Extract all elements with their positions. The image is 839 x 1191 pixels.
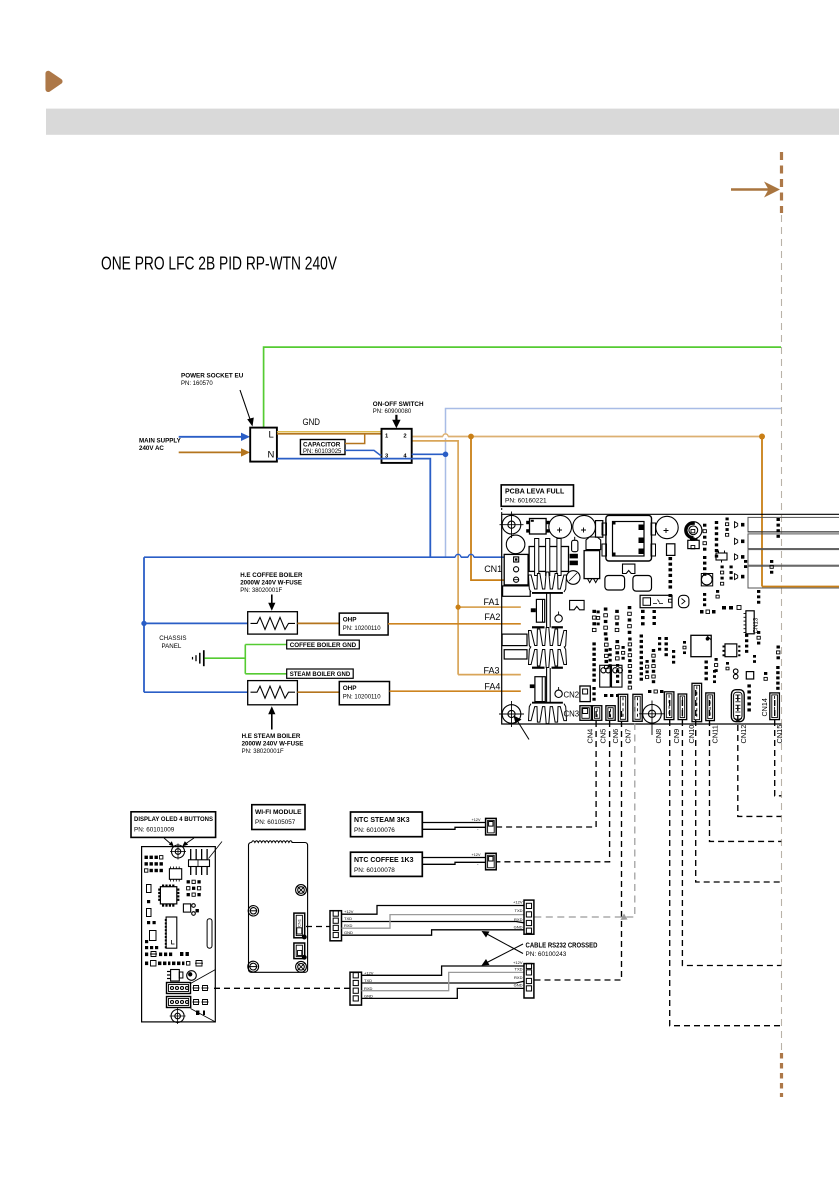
label ON-OFF SWITCH bbox=[373, 401, 424, 415]
NTC STEAM text bbox=[354, 817, 410, 834]
heatsink HS1 fins bbox=[529, 572, 567, 724]
steam OHP box bbox=[339, 682, 389, 705]
display RS232 dashed link bbox=[214, 987, 350, 989]
junction dot neutral bbox=[443, 452, 449, 458]
label CN8 under PCB bbox=[654, 729, 663, 744]
wire display +12V bbox=[362, 966, 525, 975]
capacitor C1 box bbox=[300, 440, 345, 455]
display connector J1 bbox=[167, 983, 209, 994]
svg-text:GND: GND bbox=[514, 925, 523, 930]
regulator TO-220 bbox=[584, 551, 600, 583]
coffee boiler resistor element bbox=[251, 617, 296, 629]
label FA1 bbox=[484, 597, 500, 607]
coffee OHP text bbox=[343, 616, 382, 632]
display left col parts bbox=[145, 931, 158, 950]
display connector vertical bbox=[165, 917, 177, 948]
NTC coffee wires bbox=[422, 858, 485, 865]
svg-text:H.E STEAM BOILER: H.E STEAM BOILER bbox=[242, 733, 301, 740]
svg-text:TXD: TXD bbox=[344, 916, 352, 921]
NTC coffee connector bbox=[486, 853, 497, 870]
leader arrow to switch bbox=[392, 415, 400, 429]
coffee boiler resistor box bbox=[248, 612, 298, 634]
svg-text:CN15: CN15 bbox=[775, 725, 784, 744]
wire coffee boiler to OHP bbox=[297, 622, 339, 624]
svg-text:PN: 60100078: PN: 60100078 bbox=[354, 867, 395, 874]
relay bank pin symbols bbox=[735, 522, 745, 580]
junction dot live/CN1 drop bbox=[468, 434, 474, 440]
varistor circle bbox=[566, 571, 580, 585]
node COFFEE BOILER GND box bbox=[287, 640, 360, 649]
NTC steam wires bbox=[422, 823, 485, 830]
small circle part bbox=[555, 612, 562, 623]
svg-text:CN4: CN4 bbox=[586, 729, 595, 744]
wire chassis ground green bbox=[205, 657, 246, 659]
svg-text:+12V: +12V bbox=[513, 900, 523, 905]
display pad grid top-left bbox=[145, 856, 163, 873]
wifi RS232 dashed link bbox=[306, 926, 330, 928]
svg-text:PN: 10200110: PN: 10200110 bbox=[343, 626, 382, 632]
microcontroller IC big bbox=[691, 635, 711, 656]
connector CN2 circle bbox=[555, 687, 562, 698]
wire wifi +12V bbox=[342, 906, 525, 915]
capacitor vertical bbox=[667, 544, 675, 556]
SOT-23 Q1 bbox=[716, 551, 727, 563]
wire hop tan over pale-blue bbox=[443, 434, 448, 437]
svg-text:GND: GND bbox=[344, 930, 353, 935]
svg-text:RXD: RXD bbox=[344, 923, 353, 928]
WI-FI MODULE text bbox=[255, 809, 302, 826]
harness CN8 to right edge bbox=[670, 700, 782, 1026]
svg-text:PN: 160570: PN: 160570 bbox=[181, 381, 213, 387]
svg-text:PANEL: PANEL bbox=[162, 643, 182, 650]
wifi connector CN2 bbox=[294, 943, 306, 959]
SMD pad field below transformer bbox=[592, 606, 644, 635]
label GND bbox=[303, 417, 321, 427]
label CN12 under PCB bbox=[739, 725, 748, 744]
capacitor bracket bbox=[586, 537, 601, 550]
wire capacitor to switch pin3 bbox=[345, 450, 382, 455]
wifi screw hole bottom-left bbox=[248, 961, 259, 972]
on-off switch S1 box bbox=[382, 429, 412, 463]
label CN2 bbox=[564, 690, 580, 699]
NTC STEAM 3K3 box bbox=[351, 812, 423, 837]
svg-text:L: L bbox=[269, 430, 274, 441]
svg-text:CN3: CN3 bbox=[564, 710, 580, 719]
mounting hole bottom-left bbox=[499, 701, 524, 727]
wifi connector CN1 bbox=[294, 913, 306, 939]
svg-text:PN: 60900080: PN: 60900080 bbox=[373, 409, 412, 415]
leader arrows to display hole bbox=[164, 838, 194, 847]
svg-text:PN: 60101009: PN: 60101009 bbox=[134, 826, 175, 833]
header play icon bbox=[48, 74, 60, 90]
svg-text:FA1: FA1 bbox=[484, 597, 500, 607]
svg-text:CN12: CN12 bbox=[739, 725, 748, 744]
display connector J2 bbox=[167, 997, 209, 1008]
white relay slot A bbox=[502, 634, 527, 646]
svg-text:CABLE RS232 CROSSED: CABLE RS232 CROSSED bbox=[526, 943, 598, 950]
label H.E STEAM BOILER bbox=[242, 733, 304, 755]
label FA3 bbox=[484, 665, 500, 675]
label CABLE RS232 CROSSED bbox=[526, 943, 598, 959]
wire N under switch to drop bbox=[277, 459, 430, 558]
display tiny pads bottom bbox=[196, 1011, 205, 1016]
fuse holder FA1/FA2 bbox=[531, 599, 545, 622]
mounting hole top-left bbox=[500, 512, 524, 539]
harness CN5 to NTC coffee bbox=[496, 711, 609, 862]
label FA4 bbox=[484, 682, 500, 692]
svg-text:TXD: TXD bbox=[515, 908, 523, 913]
svg-text:CN13: CN13 bbox=[753, 617, 760, 633]
wire neutral horizontal to CN1 bbox=[144, 556, 514, 558]
svg-text:FA3: FA3 bbox=[484, 665, 500, 675]
svg-text:CN11: CN11 bbox=[710, 725, 719, 743]
rounded connector with arrow bbox=[679, 595, 689, 607]
connector CN12 micro-USB bbox=[731, 690, 744, 722]
node STEAM BOILER GND text bbox=[290, 671, 351, 678]
connector CN14 bbox=[770, 693, 780, 720]
svg-text:PN: 60100076: PN: 60100076 bbox=[354, 827, 395, 834]
label CN15 under PCB bbox=[775, 725, 784, 744]
label CHASSIS PANEL bbox=[159, 635, 186, 650]
wire display RXD to TXD (gray) bbox=[362, 972, 525, 990]
white relay slot B bbox=[504, 650, 527, 659]
svg-text:+12V: +12V bbox=[472, 818, 481, 822]
capacitor text bbox=[303, 441, 342, 455]
bridge rectifier BR1 bbox=[526, 519, 550, 535]
svg-text:CAPACITOR: CAPACITOR bbox=[303, 441, 341, 448]
pads near CN12 bbox=[733, 669, 753, 679]
svg-text:GND: GND bbox=[303, 417, 321, 427]
QFN IC bbox=[723, 644, 741, 657]
svg-text:DISPLAY OLED 4 BUTTONS: DISPLAY OLED 4 BUTTONS bbox=[134, 816, 214, 823]
display header 4-pin bbox=[189, 849, 210, 875]
leader arrow to power socket bbox=[240, 390, 254, 427]
display buzzer bbox=[187, 971, 197, 981]
svg-text:CN10: CN10 bbox=[687, 725, 696, 744]
harness CN14 to right edge bbox=[775, 700, 782, 796]
svg-text:PN: 10200110: PN: 10200110 bbox=[343, 695, 382, 701]
display pad row 1 bbox=[145, 952, 189, 957]
display slot bbox=[207, 919, 212, 949]
connector mid-right bbox=[640, 595, 672, 607]
junction dot live right drop bbox=[759, 434, 765, 440]
svg-text:POWER SOCKET EU: POWER SOCKET EU bbox=[181, 373, 244, 380]
NTC COFFEE text bbox=[354, 857, 414, 874]
wire L to switch pin1 (yellow+brown pair) bbox=[277, 432, 382, 434]
harness CN11 to right edge bbox=[710, 700, 782, 841]
wire FA1 feed bbox=[458, 606, 521, 608]
svg-text:RXD: RXD bbox=[514, 917, 523, 922]
svg-text:PN: 60100243: PN: 60100243 bbox=[526, 951, 567, 958]
label POWER SOCKET EU bbox=[181, 373, 244, 387]
wire wifi GND bbox=[342, 930, 525, 935]
leader arrow to coffee boiler bbox=[268, 595, 275, 611]
label FA2 bbox=[484, 612, 500, 622]
NTC steam connector bbox=[486, 818, 497, 835]
display SOIC IC bbox=[169, 867, 181, 882]
mounting hole bottom-mid bbox=[639, 701, 665, 736]
svg-text:COFFEE BOILER GND: COFFEE BOILER GND bbox=[290, 642, 357, 649]
svg-text:CN8: CN8 bbox=[654, 729, 663, 744]
wire coffee OHP to FA2 bbox=[388, 623, 521, 625]
label H.E COFFEE BOILER bbox=[240, 572, 303, 594]
wire dark-orange drop at PCB right bbox=[762, 437, 839, 587]
SMD pad field left mid bbox=[592, 635, 668, 690]
connector CN7 bbox=[633, 694, 642, 721]
label CN6 under PCB bbox=[611, 729, 620, 744]
svg-text:CN14: CN14 bbox=[760, 698, 769, 716]
component notch shape A bbox=[623, 564, 635, 573]
svg-text:PCBA LEVA FULL: PCBA LEVA FULL bbox=[505, 489, 565, 496]
svg-text:STEAM BOILER GND: STEAM BOILER GND bbox=[290, 671, 351, 678]
wifi cable left connector bbox=[330, 911, 342, 941]
svg-text:CN1: CN1 bbox=[484, 564, 502, 574]
leader arrows cable rs232 bbox=[482, 931, 524, 966]
svg-text:NTC STEAM 3K3: NTC STEAM 3K3 bbox=[354, 817, 410, 824]
wire hop neutral over fuse feed bbox=[455, 554, 461, 557]
svg-text:MAIN SUPPLY: MAIN SUPPLY bbox=[139, 438, 182, 445]
connector CN13 bbox=[744, 611, 755, 634]
label CN5 under PCB bbox=[599, 729, 608, 744]
header gray bar bbox=[46, 109, 839, 135]
relay RL1 rounded bbox=[605, 576, 625, 591]
coffee OHP box bbox=[339, 613, 388, 635]
harness CN12 to right edge bbox=[738, 695, 782, 816]
svg-text:H.E COFFEE BOILER: H.E COFFEE BOILER bbox=[240, 572, 303, 579]
svg-text:2000W 240V W-FUSE: 2000W 240V W-FUSE bbox=[242, 741, 304, 748]
wifi cable right pin labels bbox=[513, 900, 523, 930]
off-page reference arrow bbox=[731, 182, 780, 198]
svg-text:2: 2 bbox=[403, 434, 406, 440]
connector CN11 bbox=[706, 693, 715, 721]
display QFP IC bbox=[158, 885, 179, 907]
wire green bracket to boiler grounds bbox=[245, 645, 286, 674]
connector CN5 bbox=[606, 706, 615, 721]
steam OHP text bbox=[343, 685, 382, 701]
wire neutral down to boilers bbox=[143, 557, 145, 692]
svg-text:+12V: +12V bbox=[472, 853, 481, 857]
node STEAM BOILER GND box bbox=[287, 669, 354, 678]
relay box below CN1 bbox=[503, 586, 531, 596]
pin label N bbox=[268, 450, 275, 461]
leader arrow at bottom-left hole bbox=[514, 716, 530, 740]
label CN7 under PCB bbox=[624, 729, 633, 744]
chassis ground symbol bbox=[193, 650, 204, 666]
wire GND green from socket to right bbox=[264, 347, 781, 428]
svg-text:+12V: +12V bbox=[513, 960, 523, 965]
wire steam OHP to FA4 bbox=[390, 690, 521, 692]
SMD pad extra field 2 bbox=[597, 611, 757, 698]
wifi screw hole bottom-right bbox=[296, 961, 307, 972]
display leader diagonal bbox=[209, 842, 223, 859]
display transistor bbox=[167, 970, 183, 982]
title ONE PRO LFC 2B PID RP-WTN 240V bbox=[101, 254, 338, 274]
wire FA3 feed bbox=[458, 674, 521, 676]
trimmer RV1 bbox=[701, 574, 712, 586]
wire live tan branch to fuse feed bbox=[412, 441, 458, 675]
steam boiler resistor element bbox=[251, 686, 296, 698]
svg-text:240V AC: 240V AC bbox=[139, 445, 164, 452]
svg-text:OHP: OHP bbox=[343, 685, 358, 692]
electrolytic capacitor CE2 bbox=[573, 515, 596, 538]
PCBA LEVA FULL text bbox=[505, 489, 565, 505]
svg-text:CN7: CN7 bbox=[624, 729, 633, 744]
display cable right pin labels bbox=[513, 960, 523, 988]
switch pin numbers bbox=[385, 434, 407, 460]
inductor tall bbox=[596, 521, 603, 538]
electrolytic capacitor CE3 bbox=[656, 516, 678, 538]
SMD pads pair bbox=[570, 554, 578, 565]
wire hop neutral over CN1 drop bbox=[468, 554, 474, 557]
wire neutral to steam boiler bbox=[144, 691, 248, 693]
svg-text:PN: 60160221: PN: 60160221 bbox=[505, 497, 547, 504]
wifi screw hole left bbox=[248, 906, 258, 916]
connector CN6 bbox=[618, 694, 627, 721]
wire wifi TXD to RXD bbox=[342, 922, 525, 923]
capacitor round C5 bbox=[506, 535, 525, 554]
svg-text:CN1: CN1 bbox=[297, 918, 302, 927]
display pad row 2 bbox=[145, 961, 203, 967]
label CN4 under PCB bbox=[586, 729, 595, 744]
PCB U1 outline bbox=[502, 508, 839, 724]
svg-text:ON-OFF SWITCH: ON-OFF SWITCH bbox=[373, 401, 424, 408]
SMD pad extra field bbox=[592, 518, 780, 701]
svg-text:CN5: CN5 bbox=[599, 729, 608, 744]
label CN10 under PCB bbox=[687, 725, 696, 744]
toroid inductor L2 bbox=[685, 522, 702, 539]
harness CN6 to display RS232 bbox=[534, 711, 622, 980]
wifi cable right connector bbox=[524, 900, 534, 934]
leader arrow to steam boiler bbox=[268, 706, 275, 729]
connector CN10 bbox=[692, 683, 702, 721]
NTC COFFEE 1K3 box bbox=[351, 852, 423, 876]
connector CN3 bbox=[580, 706, 591, 721]
svg-text:GND: GND bbox=[514, 982, 523, 987]
fuse holder FA3/FA4 bbox=[530, 677, 546, 702]
display leader diagonals bottom bbox=[191, 970, 216, 1022]
wire main supply live blue with arrowhead bbox=[179, 433, 250, 441]
component notch shape B bbox=[570, 600, 585, 609]
transformer T1 small block bbox=[529, 539, 568, 576]
wifi PCB outline bbox=[249, 841, 308, 973]
WI-FI MODULE label box bbox=[252, 805, 305, 830]
junction dot boiler neutral bbox=[141, 621, 146, 626]
harness CN7 to wifi RS232 (gray) bbox=[534, 700, 635, 920]
PCBA LEVA FULL label box bbox=[501, 485, 573, 506]
SMD pad field right mid bbox=[705, 631, 780, 711]
transformer T2 big bbox=[602, 515, 656, 561]
display cable left pin labels bbox=[364, 970, 374, 998]
svg-text:CN9: CN9 bbox=[672, 729, 681, 744]
NTC coffee +12V label bbox=[472, 853, 481, 867]
svg-text:WI-FI MODULE: WI-FI MODULE bbox=[255, 809, 302, 816]
svg-text:PN: 38020001F: PN: 38020001F bbox=[240, 588, 282, 594]
DISPLAY OLED text bbox=[134, 816, 214, 833]
label MAIN SUPPLY 240V AC bbox=[139, 438, 182, 453]
wire steam boiler to OHP bbox=[297, 691, 339, 693]
wire neutral to coffee boiler bbox=[144, 622, 248, 624]
svg-text:CN2: CN2 bbox=[564, 690, 580, 699]
connector CN2 bbox=[580, 686, 590, 702]
wire display TXD to RXD bbox=[362, 981, 525, 983]
label CN3 bbox=[564, 710, 580, 719]
wire wifi RXD to TXD (gray) bbox=[342, 915, 525, 929]
svg-text:N: N bbox=[268, 450, 275, 461]
connector CN4 bbox=[592, 706, 601, 721]
harness CN9 to right edge bbox=[682, 700, 781, 966]
display pad grid right bbox=[187, 880, 201, 896]
SMD pad field right upper bbox=[669, 518, 733, 589]
svg-text:CHASSIS: CHASSIS bbox=[159, 635, 186, 642]
wire switch pin4 to junction bbox=[412, 453, 446, 455]
label CN13 bbox=[753, 617, 760, 633]
connector CN1 on PCB bbox=[504, 554, 528, 585]
display small box bbox=[183, 904, 199, 916]
svg-text:NTC COFFEE 1K3: NTC COFFEE 1K3 bbox=[354, 857, 414, 864]
wifi screw hole top-right bbox=[296, 885, 307, 896]
electrolytic capacitor CE1 bbox=[549, 515, 572, 538]
display small parts left bbox=[147, 885, 156, 925]
svg-text:PN: 60103025: PN: 60103025 bbox=[303, 449, 342, 455]
wire live tan long run to PCB right bbox=[412, 436, 762, 438]
node COFFEE BOILER GND text bbox=[290, 642, 357, 649]
pin label L bbox=[269, 430, 274, 441]
harness CN4 to NTC steam bbox=[496, 711, 596, 827]
junction dot FA1 feed bbox=[456, 605, 461, 610]
DISPLAY OLED label box bbox=[131, 812, 216, 838]
wifi cable left pin labels bbox=[344, 909, 354, 935]
NTC steam +12V label bbox=[472, 818, 481, 832]
power socket J1 box bbox=[250, 428, 277, 462]
svg-text:FA2: FA2 bbox=[484, 612, 500, 622]
wire capacitor to live bbox=[345, 434, 365, 444]
svg-text:FA4: FA4 bbox=[484, 682, 500, 692]
page fold dashed line (bottom brown) bbox=[780, 1053, 783, 1097]
svg-text:+12V: +12V bbox=[344, 909, 354, 914]
capacitor small cylinder bbox=[572, 537, 578, 552]
svg-text:PN: 38020001F: PN: 38020001F bbox=[242, 749, 284, 755]
display PCB outline bbox=[142, 847, 216, 1022]
display cable right connector bbox=[524, 963, 534, 998]
page fold dashed line (top brown) bbox=[780, 152, 783, 213]
display cable left connector bbox=[350, 972, 362, 1005]
relay RL2 rounded bbox=[633, 576, 652, 592]
display mounting hole top bbox=[170, 844, 186, 860]
wire main supply neutral brown with arrowhead bbox=[179, 448, 250, 456]
label CN9 under PCB bbox=[672, 729, 681, 744]
opto relay pair boxes bbox=[600, 665, 623, 687]
wire dark-orange drop to CN1 pin3 bbox=[471, 436, 515, 580]
label CN11 under PCB bbox=[710, 725, 719, 743]
page fold dashed line (middle gray) bbox=[781, 215, 783, 1051]
relay bank K1-K4 boxes bbox=[748, 517, 839, 588]
svg-text:TXD: TXD bbox=[515, 966, 523, 971]
wire display GND bbox=[362, 988, 525, 998]
svg-text:OHP: OHP bbox=[343, 616, 358, 623]
svg-text:PN: 60105057: PN: 60105057 bbox=[255, 819, 296, 826]
connector CN9 bbox=[678, 694, 687, 720]
harness CN10 to right edge bbox=[696, 690, 782, 882]
wire neutral pale-blue riser and top run bbox=[446, 409, 782, 558]
steam boiler resistor box bbox=[248, 681, 298, 705]
IC square with tabs bbox=[688, 539, 699, 549]
svg-text:RXD: RXD bbox=[514, 975, 523, 980]
svg-text:2000W 240V W-FUSE: 2000W 240V W-FUSE bbox=[240, 579, 302, 586]
svg-text:ONE PRO LFC 2B PID RP-WTN 240V: ONE PRO LFC 2B PID RP-WTN 240V bbox=[101, 254, 338, 274]
svg-text:CN6: CN6 bbox=[611, 729, 620, 744]
connector CN8 bbox=[664, 692, 674, 720]
display mounting hole bottom bbox=[170, 1008, 186, 1024]
